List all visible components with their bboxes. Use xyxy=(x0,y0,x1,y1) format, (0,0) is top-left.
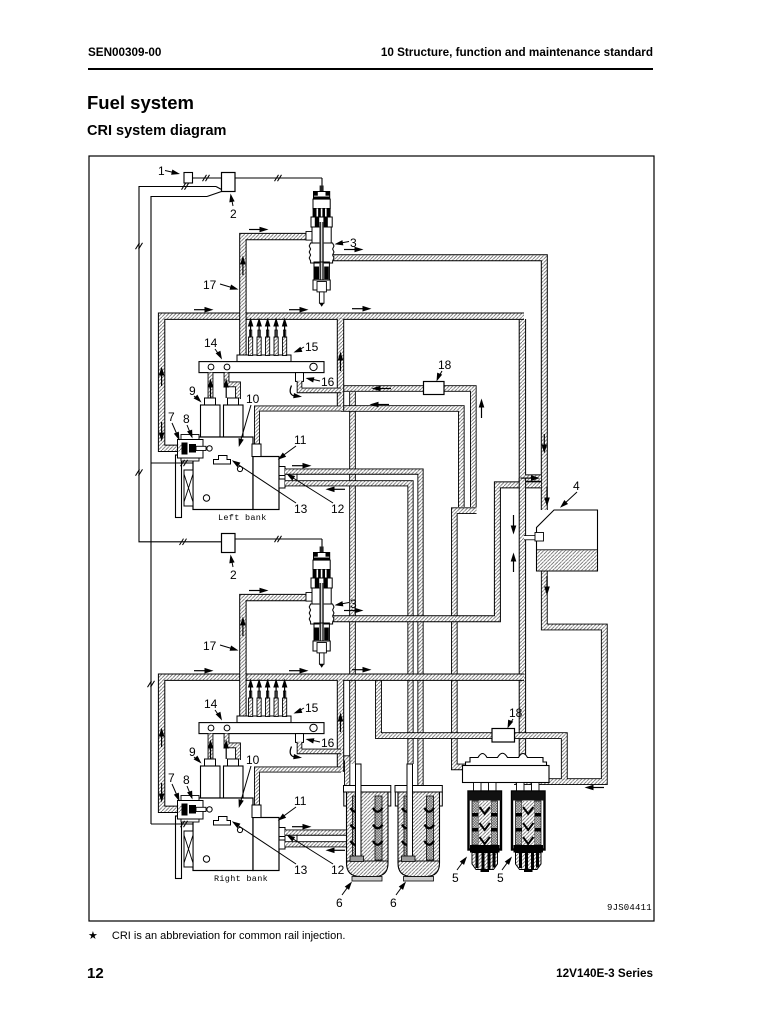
right bank module xyxy=(151,534,524,879)
svg-text:Right bank: Right bank xyxy=(214,874,268,884)
svg-text:5: 5 xyxy=(497,871,504,885)
svg-text:4: 4 xyxy=(573,479,580,493)
down pipe to filter head (left side) xyxy=(454,511,476,767)
injector 1 return extension down to tank inlet xyxy=(455,258,544,510)
label 4 xyxy=(558,479,580,510)
fuel tank 4 xyxy=(535,510,598,571)
svg-text:1: 1 xyxy=(158,164,165,178)
main fuel filter 5 (left) xyxy=(469,792,502,873)
diagram border frame xyxy=(89,156,654,921)
injector 2 return extension up to tank inlet xyxy=(455,485,541,619)
flow arrow up beside joint 18 xyxy=(479,399,485,419)
tank suction passage (white pipe) xyxy=(524,535,537,540)
flow arrows toward pump on gallery runs xyxy=(372,386,392,392)
label 6 (left) xyxy=(336,880,354,910)
wire W2 (left harness to pump solenoids) xyxy=(148,192,222,825)
label 18 (upper) xyxy=(434,358,452,383)
tank outlet pipe to filter head xyxy=(514,571,604,782)
drain drop from junction 2 into pre-filter xyxy=(341,759,348,788)
gallery pipe with joint 18 (lower) xyxy=(379,677,565,779)
pump 1 outlet pipe lower run to pre-filters xyxy=(346,483,411,764)
svg-text:Left bank: Left bank xyxy=(218,513,267,523)
label 6 (right) xyxy=(390,880,408,910)
return run from pump port 11 side xyxy=(341,409,461,508)
joint box 18 (upper) xyxy=(424,382,445,395)
loop 1 right leg and tank connector xyxy=(522,319,541,478)
label 5 (left) xyxy=(452,855,469,885)
filter head plate xyxy=(463,753,550,792)
svg-text:9JS04411: 9JS04411 xyxy=(607,903,652,913)
gallery pipe with joint 18 (upper) xyxy=(344,389,473,508)
wire box1 to box2 xyxy=(193,175,222,181)
wire W1 from engine controller (left harness) xyxy=(136,183,222,545)
joint box 18 (lower) xyxy=(492,729,515,743)
pump 1 outlet pipe upper run to pre-filters xyxy=(346,472,421,786)
label 1 xyxy=(158,164,181,178)
label 18 (lower) xyxy=(505,706,523,730)
flow arrows at tank inlet xyxy=(542,434,548,454)
svg-text:18: 18 xyxy=(509,706,523,720)
label 5 (right) xyxy=(497,855,514,885)
pre-filter 6 (left) xyxy=(344,764,391,881)
left bank module xyxy=(151,173,524,518)
suction trunk pipe down to filter head run xyxy=(519,478,526,782)
svg-text:5: 5 xyxy=(452,871,459,885)
pre-filter 6 (right) xyxy=(395,764,442,881)
flow arrow on tank outlet xyxy=(544,576,550,596)
main fuel filter 5 (right) xyxy=(512,792,545,873)
sensor box 1 xyxy=(184,173,193,184)
svg-text:18: 18 xyxy=(438,358,452,372)
svg-text:6: 6 xyxy=(390,896,397,910)
return pipe V1 from junction down to pre-filter xyxy=(349,392,356,764)
svg-text:6: 6 xyxy=(336,896,343,910)
flow arrow into filter head xyxy=(585,785,605,791)
